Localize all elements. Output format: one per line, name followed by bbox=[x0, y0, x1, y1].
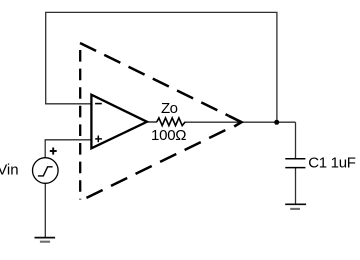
wire resistor to output node bbox=[185, 121, 296, 123]
ground below Vin bbox=[35, 238, 56, 242]
wire feedback top horizontal bbox=[45, 11, 277, 13]
dashed amplifier outline bottom edge bbox=[80, 128, 229, 201]
arrowhead at dashed outline tip bbox=[229, 116, 242, 127]
ground below C1 bbox=[285, 204, 306, 209]
wire op-amp output to resistor bbox=[148, 121, 157, 123]
node output junction bbox=[274, 120, 279, 125]
svg-text:Zo: Zo bbox=[161, 100, 178, 117]
op-amp bbox=[91, 95, 147, 149]
wire feedback right vertical bbox=[276, 12, 278, 122]
wire Vin top vertical bbox=[44, 140, 46, 158]
capacitor C1 bbox=[285, 159, 305, 168]
svg-text:100Ω: 100Ω bbox=[151, 127, 187, 144]
wire capacitor to ground bbox=[295, 168, 297, 205]
wire output node down to capacitor bbox=[295, 122, 297, 159]
svg-text:Vin: Vin bbox=[0, 162, 19, 179]
wire feedback left vertical bbox=[45, 12, 47, 103]
wire non-inverting input horizontal bbox=[45, 139, 92, 141]
resistor Zo bbox=[157, 118, 185, 126]
source Vin ramp symbol bbox=[38, 167, 53, 176]
source Vin circle bbox=[33, 158, 59, 184]
source Vin plus sign bbox=[50, 148, 57, 155]
dashed amplifier outline top edge bbox=[80, 43, 229, 116]
op-amp minus marker bbox=[95, 103, 102, 105]
wire inverting input bbox=[45, 103, 91, 105]
op-amp plus marker bbox=[95, 136, 102, 143]
wire Vin bottom vertical bbox=[44, 183, 46, 237]
dashed amplifier outline left edge bbox=[79, 43, 81, 200]
svg-text:C1 1uF: C1 1uF bbox=[308, 155, 356, 172]
